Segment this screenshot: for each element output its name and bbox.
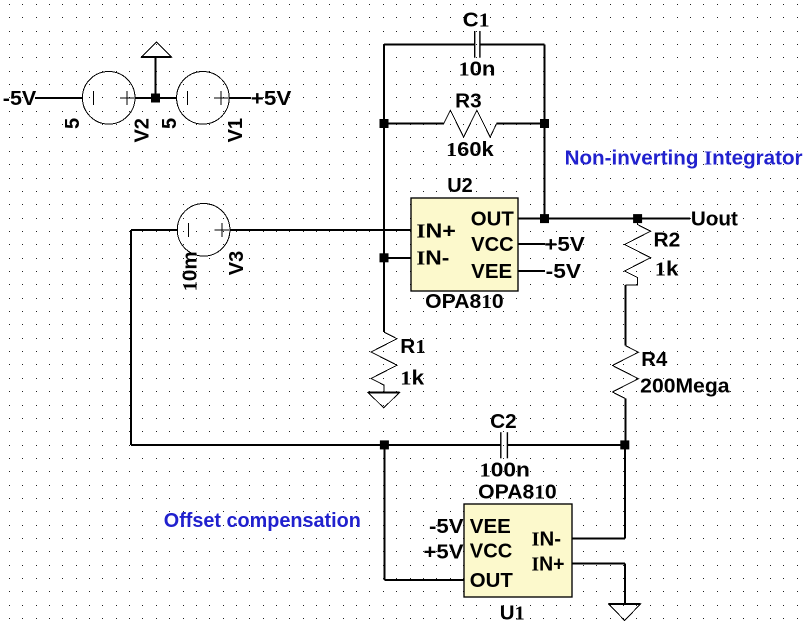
- voltage source V3: [177, 204, 230, 257]
- svg-text:V2: V2: [132, 118, 154, 142]
- svg-text:VEE: VEE: [471, 261, 512, 283]
- svg-text:1k: 1k: [400, 367, 425, 389]
- svg-text:-5V: -5V: [429, 516, 464, 538]
- wire right feedback rail: [544, 44, 546, 218]
- wire U1 IN- to C2 node: [572, 445, 625, 539]
- wire V3 plus to U2 IN+: [230, 229, 411, 231]
- junction OUT right rail: [540, 214, 549, 223]
- antenna symbol (up triangle): [141, 42, 172, 57]
- svg-text:-5V: -5V: [3, 88, 37, 110]
- wire U2 VCC stub: [518, 243, 545, 245]
- junction U2 IN-: [380, 253, 389, 262]
- wire R4 bottom: [624, 399, 626, 445]
- svg-text:VCC: VCC: [471, 234, 514, 256]
- svg-text:U1: U1: [500, 603, 525, 625]
- junction R3 right: [540, 119, 549, 128]
- svg-text:OPA810: OPA810: [478, 482, 557, 504]
- svg-text:VEE: VEE: [470, 516, 511, 538]
- svg-text:R1: R1: [400, 336, 425, 358]
- svg-text:U2: U2: [447, 175, 473, 197]
- resistor R3: [444, 110, 497, 137]
- junction V1-V2 node: [151, 94, 160, 103]
- junction R3 left: [380, 119, 389, 128]
- voltage source V1: [177, 72, 230, 125]
- voltage source V2: [82, 72, 135, 125]
- svg-text:Offset compensation: Offset compensation: [164, 510, 361, 532]
- svg-text:200Mega: 200Mega: [640, 376, 730, 398]
- junction bottom C2 right: [620, 440, 629, 449]
- svg-text:IN-: IN-: [532, 528, 562, 550]
- wire U2 IN- to rail: [384, 257, 411, 259]
- svg-text:VCC: VCC: [470, 540, 513, 562]
- svg-text:+5V: +5V: [424, 542, 465, 564]
- svg-text:V1: V1: [225, 118, 247, 142]
- capacitor C2: [500, 432, 501, 458]
- ground below R1: [368, 393, 399, 408]
- svg-text:IN+: IN+: [532, 553, 565, 575]
- resistor R2: [625, 219, 651, 285]
- svg-text:10m: 10m: [180, 251, 202, 291]
- svg-text:C2: C2: [490, 411, 517, 433]
- svg-text:160k: 160k: [446, 139, 494, 161]
- svg-text:C1: C1: [463, 10, 490, 32]
- op-amp U2 body: [411, 198, 518, 291]
- junction OUT R2: [633, 214, 642, 223]
- wire R3 left stub: [384, 123, 444, 125]
- wire R2 to R4: [624, 285, 626, 346]
- svg-text:Non-inverting Integrator: Non-inverting Integrator: [565, 148, 803, 170]
- svg-text:1k: 1k: [655, 258, 680, 280]
- wire -5V lead to V2: [35, 97, 82, 99]
- wire R3 right stub: [497, 123, 545, 125]
- svg-text:-5V: -5V: [546, 261, 582, 283]
- svg-text:OPA810: OPA810: [425, 291, 504, 313]
- ground below U1 IN+: [609, 604, 641, 621]
- svg-text:R3: R3: [455, 90, 482, 112]
- op-amp U1 body: [464, 504, 572, 597]
- wire V2 to V1: [135, 97, 177, 99]
- svg-text:OUT: OUT: [470, 570, 513, 592]
- svg-text:IN+: IN+: [416, 221, 456, 243]
- wire C1 right: [480, 43, 544, 45]
- svg-text:OUT: OUT: [471, 209, 514, 231]
- junction bottom U1 OUT: [380, 440, 389, 449]
- wire junction up to antenna: [155, 57, 157, 98]
- wire left rail down: [130, 230, 132, 445]
- resistor R4: [612, 346, 638, 399]
- wire U2 OUT: [518, 218, 690, 220]
- svg-text:100n: 100n: [479, 460, 530, 482]
- wire U1 OUT horizontal: [384, 579, 464, 581]
- wire U1 OUT vertical: [383, 445, 385, 580]
- svg-text:V3: V3: [226, 251, 248, 275]
- wire bottom node right segment: [507, 444, 625, 446]
- svg-text:5: 5: [159, 118, 181, 129]
- svg-text:5: 5: [62, 118, 84, 129]
- svg-text:+5V: +5V: [251, 88, 292, 110]
- resistor R1: [371, 332, 397, 393]
- svg-text:IN-: IN-: [416, 248, 449, 270]
- svg-text:+5V: +5V: [544, 234, 585, 256]
- svg-text:10n: 10n: [459, 59, 496, 81]
- capacitor C1: [474, 31, 475, 58]
- svg-text:R4: R4: [641, 349, 668, 371]
- wire C1 left: [384, 43, 474, 45]
- wire left feedback rail: [383, 44, 385, 332]
- wire U2 VEE stub: [518, 270, 545, 272]
- wire bottom node left segment: [131, 444, 500, 446]
- svg-text:Uout: Uout: [691, 209, 738, 231]
- wire V1 to +5V label: [229, 97, 251, 99]
- wire U1 IN+ to ground: [572, 563, 625, 604]
- svg-text:R2: R2: [654, 229, 681, 251]
- wire V3 minus to left rail: [131, 229, 177, 231]
